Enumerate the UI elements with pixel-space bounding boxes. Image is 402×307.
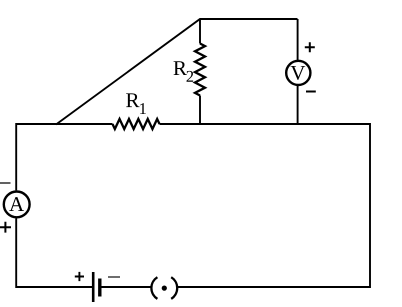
wire main horizontal right + right vertical + bottom-right segment [160,124,371,287]
label R2 [174,61,194,82]
wire voltmeter top lead [297,19,299,60]
wire diagonal and top horizontal [56,19,298,125]
battery B1 [93,272,100,302]
label R1 [126,93,146,114]
key dot [162,286,167,291]
plus label ammeter [0,222,11,233]
plus label voltmeter [305,42,315,52]
wire voltmeter bottom lead [297,86,299,124]
key K [151,277,177,299]
resistor R2 [195,44,205,96]
resistor R1 [113,119,160,129]
wire R2 bottom lead [199,96,201,125]
voltmeter U=V [286,61,310,85]
wire battery to key [101,286,152,288]
minus label ammeter [0,182,11,184]
wire left vertical below ammeter + bottom-left segment [16,218,92,287]
plus label battery [75,272,84,281]
wire R2 top lead [199,19,201,44]
minus label battery [108,276,120,278]
ammeter A [4,192,30,218]
wire main horizontal left segment with left-top corner [16,124,112,190]
minus label voltmeter [306,91,316,93]
